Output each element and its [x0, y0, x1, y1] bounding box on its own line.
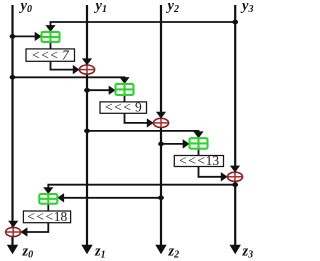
svg-text:<<<18: <<<18	[26, 209, 67, 224]
svg-text:<<< 7: <<< 7	[31, 47, 70, 62]
svg-text:<<<13: <<<13	[178, 153, 219, 168]
svg-text:<<< 9: <<< 9	[104, 100, 142, 115]
